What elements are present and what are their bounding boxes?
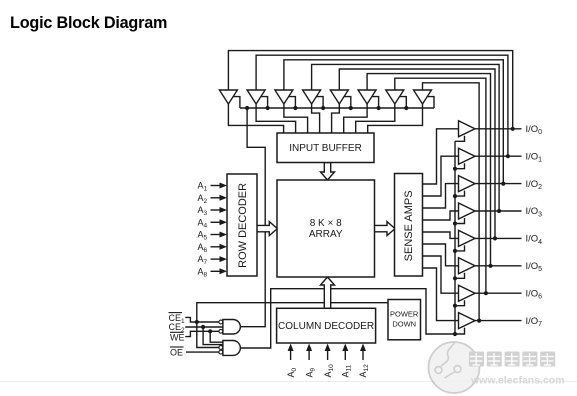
output buffer triangle O6 <box>459 258 476 274</box>
output buffer triangle O4 <box>459 203 476 219</box>
node I/O5 feedback tap <box>488 264 492 268</box>
wire input buffer B7 output to INPUT BUFFER <box>356 104 395 134</box>
arrow ROW DECODER to ARRAY <box>257 222 278 236</box>
wire I/O2 output line <box>475 183 522 185</box>
node output enable tap I/O3 <box>453 221 457 225</box>
node output enable tap I/O1 <box>453 167 457 171</box>
input buffer triangle B3 <box>275 90 293 104</box>
wire I/O3 feedback loop rail <box>312 64 500 211</box>
svg-text:SENSE AMPS: SENSE AMPS <box>403 190 415 261</box>
wire A2 input arrow <box>211 197 221 199</box>
wire A9 input arrow <box>308 350 310 360</box>
wire output buffer O1 enable <box>455 136 465 142</box>
wire I/O1 output line <box>475 155 522 157</box>
node enable bus junction B7 <box>404 106 408 110</box>
wire write-enable bus <box>240 107 434 109</box>
block INPUT BUFFER box <box>277 133 374 163</box>
wire I/O5 feedback loop rail <box>367 74 490 266</box>
node output enable tap I/O6 <box>453 304 457 308</box>
wire SENSE AMPS output 6 to output buffer <box>423 256 459 293</box>
wire SENSE AMPS output 1 to output buffer <box>423 156 459 196</box>
node CE2 junction <box>201 325 205 329</box>
wire input buffer B5 enable step <box>344 97 351 108</box>
svg-text:DOWN: DOWN <box>392 320 416 329</box>
wire output buffer O5 enable <box>455 245 465 251</box>
wire A11 input arrow <box>344 350 346 360</box>
wire CE1 branch to POWER DOWN and gate G2 <box>197 303 388 348</box>
wire input buffer B2 output to INPUT BUFFER <box>256 104 296 134</box>
svg-text:www.elecfans.com: www.elecfans.com <box>470 375 565 387</box>
node output enable feed junction <box>453 332 457 336</box>
wire gate G2 output to output-enable column <box>240 289 455 348</box>
wire I/O4 feedback loop rail <box>339 69 495 238</box>
node I/O7 feedback tap <box>477 319 481 323</box>
wire output buffer O7 enable <box>455 300 465 306</box>
wire output-enable column <box>454 141 456 334</box>
wire A3 input arrow <box>211 209 221 211</box>
wire gate G1 output to write-enable bus <box>240 108 265 327</box>
block 8Kx8 ARRAY box <box>277 180 375 277</box>
node enable bus junction B2 <box>266 106 270 110</box>
wire input buffer B2 enable step <box>261 97 268 108</box>
input buffer triangle B2 <box>247 90 265 104</box>
wire output buffer O6 enable <box>455 273 465 279</box>
svg-text:INPUT BUFFER: INPUT BUFFER <box>289 143 362 154</box>
wire WE branch to gate G2 <box>210 331 223 342</box>
inverter bubble <box>219 329 223 333</box>
inverter bubble <box>219 350 223 354</box>
wire A0 input arrow <box>290 350 292 360</box>
wire A10 input arrow <box>327 350 329 360</box>
node CE1 junction <box>195 320 199 324</box>
input buffer triangle B5 <box>330 90 348 104</box>
input buffer triangle B6 <box>358 90 376 104</box>
node enable bus junction B5 <box>349 106 353 110</box>
wire input buffer B4 output to INPUT BUFFER <box>312 104 320 134</box>
wire input buffer B6 output to INPUT BUFFER <box>344 104 367 134</box>
wire WE input <box>185 331 219 336</box>
wire input buffer B3 enable step <box>288 97 295 108</box>
arrow COLUMN DECODER to ARRAY <box>321 277 335 308</box>
wire I/O2 feedback loop rail <box>284 60 503 184</box>
node output enable tap I/O2 <box>453 194 457 198</box>
wire I/O7 output line <box>475 320 522 322</box>
svg-text:ARRAY: ARRAY <box>309 229 343 240</box>
wire input buffer B1 enable step <box>233 97 240 108</box>
wire I/O1 feedback loop rail <box>256 55 508 156</box>
wire A4 input arrow <box>211 221 221 223</box>
input buffer triangle B1 <box>219 90 237 104</box>
svg-text:8 K × 8: 8 K × 8 <box>310 218 342 229</box>
node enable bus junction B4 <box>321 106 325 110</box>
wire A5 input arrow <box>211 234 221 236</box>
inverter bubble <box>219 320 223 324</box>
wire SENSE AMPS output 5 to output buffer <box>423 244 459 266</box>
svg-text:POWER: POWER <box>390 310 419 319</box>
wire A12 input arrow <box>362 350 364 360</box>
and-gate G2 (output enable) <box>223 341 240 356</box>
node I/O3 feedback tap <box>497 209 501 213</box>
node I/O2 feedback tap <box>501 182 505 186</box>
svg-text:Logic Block Diagram: Logic Block Diagram <box>10 14 167 32</box>
wire I/O0 output line <box>475 128 522 130</box>
wire I/O6 output line <box>475 292 522 294</box>
wire A1 input arrow <box>211 185 221 187</box>
wire output buffer O8 enable <box>455 328 465 334</box>
svg-text:ROW DECODER: ROW DECODER <box>237 183 249 268</box>
block COLUMN DECODER box <box>277 308 376 343</box>
wire input buffer B1 output to INPUT BUFFER <box>228 104 283 134</box>
wire CE2 input <box>185 326 223 328</box>
wire output buffer O2 enable <box>455 163 465 169</box>
node write-enable feed junction <box>245 106 249 110</box>
svg-text:WE: WE <box>170 333 185 343</box>
wire A7 input arrow <box>211 258 221 260</box>
watermark elecfans logo <box>429 342 565 393</box>
wire input buffer B6 enable step <box>372 97 379 108</box>
input buffer triangle B7 <box>386 90 404 104</box>
wire input buffer B4 enable step <box>316 97 323 108</box>
decorative rule <box>0 381 577 383</box>
wire I/O4 output line <box>475 237 522 239</box>
node output enable tap I/O5 <box>453 276 457 280</box>
node enable bus junction B6 <box>377 106 381 110</box>
node I/O4 feedback tap <box>493 236 497 240</box>
wire OE input <box>186 351 219 353</box>
output buffer triangle O2 <box>459 148 476 164</box>
wire input buffer B8 output to INPUT BUFFER <box>368 104 423 134</box>
block POWER DOWN box <box>388 300 421 340</box>
wire I/O7 feedback loop rail <box>423 83 480 321</box>
wire input buffer B3 output to INPUT BUFFER <box>284 104 308 134</box>
wire A6 input arrow <box>211 246 221 248</box>
output buffer triangle O1 <box>459 121 476 137</box>
wire input buffer B7 enable step <box>399 97 406 108</box>
wire SENSE AMPS output 4 to output buffer <box>423 232 459 238</box>
block SENSE AMPS box <box>395 174 423 277</box>
svg-text:COLUMN DECODER: COLUMN DECODER <box>278 321 374 332</box>
wire output buffer O3 enable <box>455 191 465 197</box>
wire I/O0 feedback loop rail <box>228 51 512 129</box>
and-gate G1 (write enable) <box>223 320 240 335</box>
input buffer triangle B4 <box>303 90 321 104</box>
wire SENSE AMPS output 3 to output buffer <box>423 211 459 220</box>
output buffer triangle O3 <box>459 176 476 192</box>
node I/O0 feedback tap <box>511 127 515 131</box>
wire A8 input arrow <box>211 270 221 272</box>
node WE junction <box>208 329 212 333</box>
wire SENSE AMPS output 2 to output buffer <box>423 184 459 208</box>
wire I/O3 output line <box>475 210 522 212</box>
arrow ARRAY to SENSE AMPS <box>374 222 395 236</box>
wire input buffer B8 enable step <box>427 97 434 108</box>
output buffer triangle O8 <box>459 313 476 329</box>
input buffer triangle B8 <box>414 90 432 104</box>
wire CE2 branch to gate G2 <box>203 327 223 345</box>
block ROW DECODER box <box>227 174 257 276</box>
wire input buffer B5 output to INPUT BUFFER <box>332 104 340 134</box>
output buffer triangle O7 <box>459 285 476 301</box>
node I/O1 feedback tap <box>506 154 510 158</box>
wire output buffer O4 enable <box>455 218 465 224</box>
svg-text:OE: OE <box>170 347 183 357</box>
node enable bus junction B3 <box>293 106 297 110</box>
output buffer triangle O5 <box>459 230 476 246</box>
inverter bubble <box>219 346 223 350</box>
wire SENSE AMPS output 7 to output buffer <box>423 268 459 321</box>
wire I/O5 output line <box>475 265 522 267</box>
node I/O6 feedback tap <box>484 291 488 295</box>
wire SENSE AMPS output 0 to output buffer <box>423 129 459 184</box>
wire CE1 input <box>185 317 219 322</box>
wire I/O6 feedback loop rail <box>395 78 486 293</box>
node output enable tap I/O4 <box>453 249 457 253</box>
arrow INPUT BUFFER to ARRAY <box>321 163 335 181</box>
